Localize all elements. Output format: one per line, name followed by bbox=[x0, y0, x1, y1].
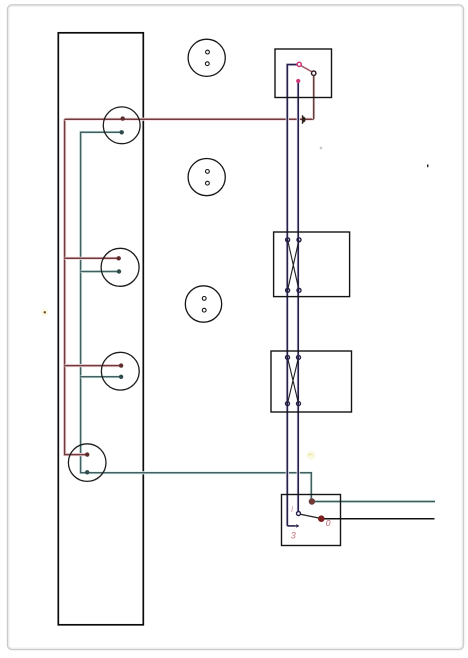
SW1 pivot ring bbox=[297, 62, 301, 66]
wire L red horizontal to switch bbox=[65, 118, 314, 121]
wire N teal branch to socket S2 bbox=[81, 270, 119, 273]
SW1 contact ring bbox=[312, 71, 316, 75]
cross switch box X1 bbox=[274, 232, 350, 297]
wire N teal branch to socket S3 bbox=[81, 375, 122, 378]
lamp L1 bbox=[188, 39, 225, 76]
X2 cross wires bbox=[288, 357, 299, 403]
trunking rectangle bbox=[58, 33, 143, 625]
svg-text:3: 3 bbox=[291, 531, 296, 541]
wire navy shuttle 2 bbox=[297, 82, 300, 512]
speck faint center bbox=[320, 147, 322, 149]
socket S4 bbox=[68, 444, 106, 482]
svg-text:0: 0 bbox=[326, 518, 331, 528]
speck right dark bbox=[427, 164, 428, 167]
lamp L3 bbox=[185, 286, 221, 322]
wire N teal output right bbox=[312, 500, 435, 503]
wire navy shuttle 1 end arrow bbox=[287, 525, 296, 527]
SW2 feed dot bbox=[309, 498, 315, 504]
wire navy shuttle 1 bbox=[287, 65, 297, 526]
wire L red branch to socket S3 bbox=[65, 364, 122, 367]
X1 terminals bbox=[286, 238, 301, 292]
wire L red vertical riser bbox=[65, 119, 88, 454]
switch box SW2 (two-way bottom) bbox=[282, 495, 341, 546]
wire N teal main bbox=[81, 132, 312, 501]
SW2 pivot ring bbox=[297, 512, 301, 516]
SW1 terminal dot bbox=[296, 79, 300, 83]
socket S3 bbox=[101, 352, 139, 390]
SW2 lever bbox=[300, 514, 320, 518]
SW2 contact dot bbox=[318, 515, 325, 522]
speck yellow blob bbox=[307, 451, 316, 460]
X2 terminals bbox=[286, 355, 301, 405]
wire red switch drop bbox=[312, 75, 315, 119]
switch box SW1 (two-way) bbox=[275, 49, 332, 98]
socket S1 bbox=[103, 107, 140, 144]
speck left bbox=[41, 308, 49, 316]
socket S2 bbox=[101, 248, 139, 286]
cross switch box X2 bbox=[271, 351, 352, 412]
lamp L2 bbox=[188, 159, 225, 196]
black output wire right bbox=[324, 518, 435, 520]
SW1 lever bbox=[301, 66, 312, 72]
junction hop on red wire bbox=[303, 115, 306, 124]
X1 cross wires bbox=[288, 240, 299, 290]
wire L red branch to socket S2 bbox=[65, 257, 119, 260]
